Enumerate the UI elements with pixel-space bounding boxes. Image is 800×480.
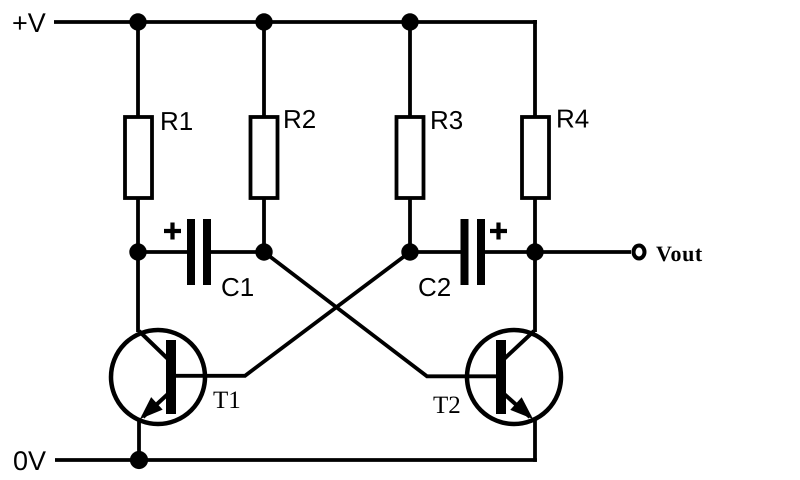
resistor R2 xyxy=(251,117,278,198)
wire R3 bottom lead xyxy=(408,198,412,252)
wire R2 top lead xyxy=(262,22,266,118)
svg-text:R1: R1 xyxy=(160,106,193,136)
capacitor C2 xyxy=(461,219,486,285)
svg-text:R3: R3 xyxy=(430,105,463,135)
svg-text:Vout: Vout xyxy=(656,241,703,266)
transistor T2 xyxy=(467,330,561,425)
node A junction dot xyxy=(129,243,146,260)
resistor R3 xyxy=(397,117,424,198)
capacitor C1 xyxy=(187,219,211,285)
output terminal circle xyxy=(634,246,645,259)
svg-text:0V: 0V xyxy=(13,446,46,476)
wire T2 collector lead xyxy=(533,252,537,332)
svg-text:T2: T2 xyxy=(433,392,461,419)
wire R3 top lead xyxy=(408,22,412,118)
wire R1 top lead xyxy=(136,22,140,118)
wire C1 right to node B xyxy=(211,250,264,254)
wire node D to output terminal xyxy=(535,250,631,254)
wire R4 bottom lead xyxy=(533,198,537,252)
C1 plus polarity mark xyxy=(164,223,181,240)
transistor T1 xyxy=(111,330,205,425)
wire node C to C2 left xyxy=(410,250,462,254)
svg-text:R4: R4 xyxy=(556,104,589,134)
node C junction dot xyxy=(401,243,418,260)
wire T1 emitter lead xyxy=(137,420,141,460)
wire C2 right to node D xyxy=(485,250,535,254)
wire bottom rail 0V xyxy=(55,458,537,462)
svg-text:C1: C1 xyxy=(221,272,254,302)
wire cross-coupling node C to T1 base xyxy=(176,252,410,376)
wire cross-coupling node B to T2 base xyxy=(264,252,496,376)
svg-text:C2: C2 xyxy=(418,272,451,302)
wire top rail +V xyxy=(54,20,537,24)
C2 plus polarity mark xyxy=(490,223,507,240)
wire T1 collector lead xyxy=(136,252,140,332)
wire R4 top lead xyxy=(533,20,537,118)
bottom rail junction dot at T1 emitter xyxy=(130,451,148,469)
node B junction dot xyxy=(255,243,272,260)
top rail junction dot at R2 xyxy=(255,13,272,30)
svg-text:+V: +V xyxy=(12,8,46,38)
svg-text:R2: R2 xyxy=(283,104,316,134)
node D junction dot xyxy=(526,243,543,260)
resistor R1 xyxy=(125,117,152,198)
resistor R4 xyxy=(522,117,549,198)
svg-text:T1: T1 xyxy=(213,387,241,414)
wire R2 bottom lead xyxy=(262,198,266,252)
top rail junction dot at R1 xyxy=(129,13,146,30)
top rail junction dot at R3 xyxy=(401,13,418,30)
wire T2 emitter lead xyxy=(533,418,537,462)
wire R1 bottom lead xyxy=(136,198,140,252)
wire node A to C1 left xyxy=(138,250,188,254)
